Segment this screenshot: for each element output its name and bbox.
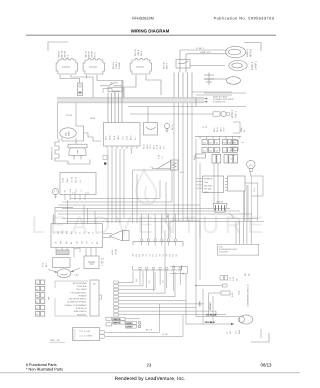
svg-text:06/13: 06/13 [261,363,273,368]
svg-text:O1: O1 [145,254,148,257]
connector grid row2 [202,148,207,153]
svg-text:BK J-P: BK J-P [146,329,153,332]
connector J2 bottom ticks [106,146,108,149]
svg-text:W 08: W 08 [90,117,96,120]
svg-text:WH 10: WH 10 [112,62,115,69]
auger motor M1 [225,46,245,57]
harness arrow upper [204,98,208,100]
svg-text:WHITE: WHITE [113,322,121,325]
wires risers right of comb [132,271,134,283]
svg-text:VLV 1: VLV 1 [235,111,238,118]
wires into P1 top [53,214,55,224]
svg-text:Y2: Y2 [148,254,151,256]
freezer lamp FL2 [83,59,105,74]
defrost heater coil [55,139,60,161]
svg-text:Publication No. 5995633703: Publication No. 5995633703 [214,17,275,21]
svg-text:Rendered by LeadVenture, Inc.: Rendered by LeadVenture, Inc. [115,376,186,382]
svg-text:ICE: ICE [65,132,68,136]
svg-text:ALARM/TLK PCB/LC: ALARM/TLK PCB/LC [67,301,87,304]
wire ice maker feeds [57,103,59,139]
svg-text:FILL MAX0: FILL MAX0 [76,288,87,291]
svg-text:TAN 8: TAN 8 [137,49,140,56]
wire GRN vertical [195,286,197,317]
wire ice maker to frame [75,138,77,144]
svg-text:A CIRCUITS: A CIRCUITS [213,101,226,104]
dispenser module box [228,176,246,191]
svg-text:OR 2: OR 2 [140,50,143,56]
defrost timer box [53,258,71,268]
defrost thermostat DT1 [57,269,71,278]
svg-text:W1: W1 [165,254,168,257]
svg-text:P-OPT/LLM: P-OPT/LLM [76,307,87,310]
wire heater bottom [60,160,90,165]
wire upper branch [128,106,246,108]
svg-text:V2: V2 [162,254,165,256]
svg-text:T8: T8 [158,254,161,256]
door switch S1 [100,85,108,87]
svg-text:BLU/WH: BLU/WH [204,184,213,187]
svg-text:WHITE: WHITE [113,318,121,321]
white label 1 [113,317,126,320]
main connector P1 block [51,224,103,248]
wire VIOLET vertical [208,293,210,317]
svg-text:WIRING DIAGRAM: WIRING DIAGRAM [131,29,170,34]
wire center bundle [173,103,175,221]
door ajar lamp B5 [247,160,255,168]
footer rule [0,372,300,374]
svg-text:W 1: W 1 [231,157,234,160]
wire arc hook [130,148,132,154]
wire to water valve [130,113,213,115]
wire top-left corner bracket [48,42,68,51]
svg-text:GY 30: GY 30 [70,176,73,183]
svg-text:R1: R1 [135,254,138,256]
defrost heater plug [213,204,227,213]
fresh food lamp B3 [164,123,169,128]
svg-text:FF DOOR Sw/TC: FF DOOR Sw/TC [71,291,87,294]
harness band center gap [57,99,204,101]
svg-text:W8: W8 [135,279,138,282]
svg-text:YEL/BLK: YEL/BLK [205,321,216,324]
svg-text:G1: G1 [148,280,151,283]
wire lamp FL3 right pin down [146,75,161,95]
svg-text:FFHS2622M: FFHS2622M [132,17,154,21]
svg-text:DEFROST 0.8: DEFROST 0.8 [51,146,54,160]
wire mesh nested rect [170,221,200,238]
wire top-right corner bracket [244,43,261,52]
svg-text:W1: W1 [216,141,219,144]
svg-text:BK 18: BK 18 [171,124,174,130]
svg-text:WH 28: WH 28 [61,50,64,57]
white label 2 [113,321,126,324]
aux motor M2 [227,77,241,85]
svg-text:C 08: C 08 [231,154,235,157]
svg-text:HRN: HRN [240,127,243,132]
main harness bus band [57,98,204,103]
power cord box [73,328,100,341]
ice maker motor M3 [60,128,76,138]
connector grid bus [195,135,241,137]
compressor COMP1 [239,315,253,324]
wire lamp FL3 left pin down [124,75,136,98]
jumper terminal left top [106,317,112,320]
wire bottom right drop [260,329,262,338]
svg-text:* Non-Illustrated Parts: * Non-Illustrated Parts [26,368,63,372]
wire bottom lines [192,91,232,93]
water valve WV1 [213,112,220,116]
watermark flame [136,170,156,204]
wire lamp FL1 right pin down [71,75,93,98]
svg-text:BR 18: BR 18 [58,51,61,58]
svg-text:G3: G3 [209,149,212,152]
svg-text:COMM (-) TO DISPENS: COMM (-) TO DISPENS [65,304,88,307]
svg-text:Y1: Y1 [223,149,225,152]
svg-text:LAMP 10 1: LAMP 10 1 [200,51,212,54]
svg-text:Y1: Y1 [229,149,231,152]
relay K1 [208,73,210,86]
svg-text:GRD - SH: GRD - SH [50,339,60,342]
alarm buzzer triangle [110,231,123,242]
svg-text:WH 31: WH 31 [134,49,137,56]
wire module right routing [245,183,258,221]
thermostat arrow right [71,268,80,272]
svg-text:LAMP 1: LAMP 1 [255,60,258,70]
wire junction bottom [170,267,188,274]
white wire 1 [125,318,140,320]
wire drop x186 [185,54,187,73]
ice maker plug body [68,144,87,148]
svg-text:GRN: GRN [199,301,202,306]
svg-text:MKR: MKR [68,131,71,136]
svg-text:C2 OR: C2 OR [115,248,118,255]
wire capacitor to lamp2 [190,65,225,67]
svg-text:MED: MED [204,191,209,194]
svg-text:LT1: LT1 [235,331,238,334]
svg-text:N LBK: N LBK [118,62,121,69]
socket J3 [144,123,158,136]
freezer lamp FL1 [56,59,78,74]
power cord plugs [100,330,105,334]
svg-text:G2: G2 [175,254,178,257]
harness header X2 [133,265,182,270]
wire heater plug lead [229,214,234,220]
svg-text:G3: G3 [203,149,206,152]
svg-text:B2: B2 [223,141,225,144]
svg-text:a1: a1 [36,301,38,304]
connector stack right [231,141,239,145]
wire lamp FL2 left pin down [86,75,88,79]
svg-text:L1 BK 1: L1 BK 1 [196,47,205,50]
svg-text:GRAY: GRAY [126,322,133,325]
svg-text:HTR 08: HTR 08 [216,201,224,204]
svg-text:B1: B1 [172,254,175,256]
svg-text:DISP LIGHTS: DISP LIGHTS [74,310,87,313]
fresh food lamp FL3 [130,59,152,74]
junction dot left [103,156,107,160]
svg-text:T&A: T&A [204,181,209,184]
dispenser control box [196,178,203,180]
svg-text:GY 2: GY 2 [94,52,97,58]
wire to dispenser lamp [186,53,225,55]
run capacitor CAP1 [84,256,99,269]
start device resistor [209,292,221,294]
control board legend frame [55,281,88,288]
wire bundle notch top [103,89,120,94]
wire P1 bottom drops [55,248,57,251]
svg-text:# J-GSM: # J-GSM [84,335,92,338]
svg-text:WH 21: WH 21 [85,50,88,57]
svg-text:RUN: RUN [238,329,241,334]
terminal shield [56,250,69,255]
wire lamp FL1 left pin down [60,75,80,83]
svg-text:GRAY: GRAY [126,326,133,329]
svg-text:PURPLE: PURPLE [204,178,213,181]
svg-text:W J-N: W J-N [162,333,168,336]
svg-text:W8: W8 [132,254,135,257]
svg-text:B2: B2 [234,141,236,144]
svg-text:W1: W1 [203,141,206,144]
svg-text:O2: O2 [162,280,165,283]
wire run capacitor lead [195,285,223,287]
svg-text:a1: a1 [36,282,38,285]
harness header X1 [133,242,183,247]
svg-text:LT. BLUE: LT. BLUE [206,314,217,317]
wire mesh verticals [107,149,109,223]
svg-text:A2 40: A2 40 [111,249,114,255]
svg-text:# Functional Parts: # Functional Parts [26,363,57,367]
wire bundle below band [107,93,109,123]
connector J4 block [60,173,96,195]
bottom long wires [106,331,160,333]
defrost thermostat [158,161,172,169]
connector J2 block [104,123,141,147]
svg-text:C 21: C 21 [229,277,232,281]
harness arrow lower [204,101,208,103]
svg-text:R8: R8 [168,254,171,256]
svg-text:S/T DEL: S/T DEL [204,188,213,191]
light fixture fuse F1 [77,83,82,96]
svg-text:BK 12: BK 12 [75,176,78,182]
svg-text:Y2: Y2 [226,332,229,334]
svg-text:OR 38: OR 38 [64,50,67,57]
svg-text:WH 30: WH 30 [163,62,166,69]
svg-text:W1: W1 [209,141,212,144]
thermostat arrow left [48,270,57,273]
compressor top connectors [220,276,223,281]
svg-text:23: 23 [147,363,152,368]
wires X1 risers [141,214,143,239]
terminal strip TB1 [36,280,40,285]
dispenser lamp B2 [229,61,247,71]
jumper terminal left bottom [106,323,112,326]
svg-text:B2: B2 [229,141,231,144]
svg-text:R1 C0: R1 C0 [66,114,73,117]
gray label 2 [126,325,137,328]
ice maker frame [62,126,84,141]
svg-text:B2: B2 [138,254,141,256]
svg-text:DEL 2: DEL 2 [166,62,169,69]
svg-text:MTR 8: MTR 8 [250,49,253,57]
main control board PCB [90,280,99,316]
svg-text:OR 80: OR 80 [91,50,94,57]
board edge connector pins [114,281,119,284]
svg-text:G3: G3 [216,149,219,152]
board edge connector wires [118,281,133,283]
wires into note box [235,221,237,244]
connector grid row1 [202,140,207,145]
svg-text:P3: P3 [232,148,234,151]
dispenser switch SW2 [176,60,190,69]
wire lamp FL2 right pin down [97,75,123,98]
svg-text:G8: G8 [142,254,145,257]
svg-text:VIOLET: VIOLET [209,301,212,310]
svg-text:# J-40: # J-40 [84,330,91,333]
svg-text:w/COVER: w/COVER [219,250,229,253]
wire drop x180 [179,50,181,73]
connector J4 pins down [64,195,66,201]
svg-text:CONDENSER A FAN U.S.: CONDENSER A FAN U.S. [247,283,250,307]
svg-text:POWER: POWER [79,294,87,297]
wire J4 corner left [55,208,73,224]
svg-text:L8: L8 [152,254,155,256]
note box [218,244,259,255]
wire upper right [204,92,246,94]
svg-text:a1: a1 [36,313,38,316]
connector grid row3 [196,154,206,158]
svg-text:FRZ DOOR SW/TC: FRZ DOOR SW/TC [69,298,87,301]
svg-text:BR 30: BR 30 [88,51,91,58]
header rule [26,34,276,36]
wire relay to motor [214,78,227,80]
svg-text:a1: a1 [36,307,38,310]
svg-text:DISP P30: DISP P30 [78,285,88,288]
wire heater plug feeds [213,164,215,204]
svg-text:P1: P1 [155,254,158,256]
svg-text:J8: J8 [232,142,234,145]
overload protector OL1 [171,160,179,170]
evaporator lamp B4 [52,188,58,194]
gray label 1 [126,321,137,324]
svg-text:S 08: S 08 [232,277,235,281]
wire module nested [244,191,246,221]
wire mesh horizontals [70,198,160,200]
svg-text:1L 10A: 1L 10A [110,81,118,84]
svg-text:S OR 4: S OR 4 [115,61,118,69]
connector grid tall box [233,122,240,133]
svg-text:a1: a1 [36,288,38,291]
svg-text:a1: a1 [36,294,38,297]
wire to auger motor [180,49,225,51]
wires X2 drops [139,270,141,285]
wire relay drops [173,73,175,98]
svg-text:KEY PULSING: KEY PULSING [73,282,87,285]
bottom-right corner bracket [251,333,269,342]
svg-text:OR: OR [48,296,51,300]
